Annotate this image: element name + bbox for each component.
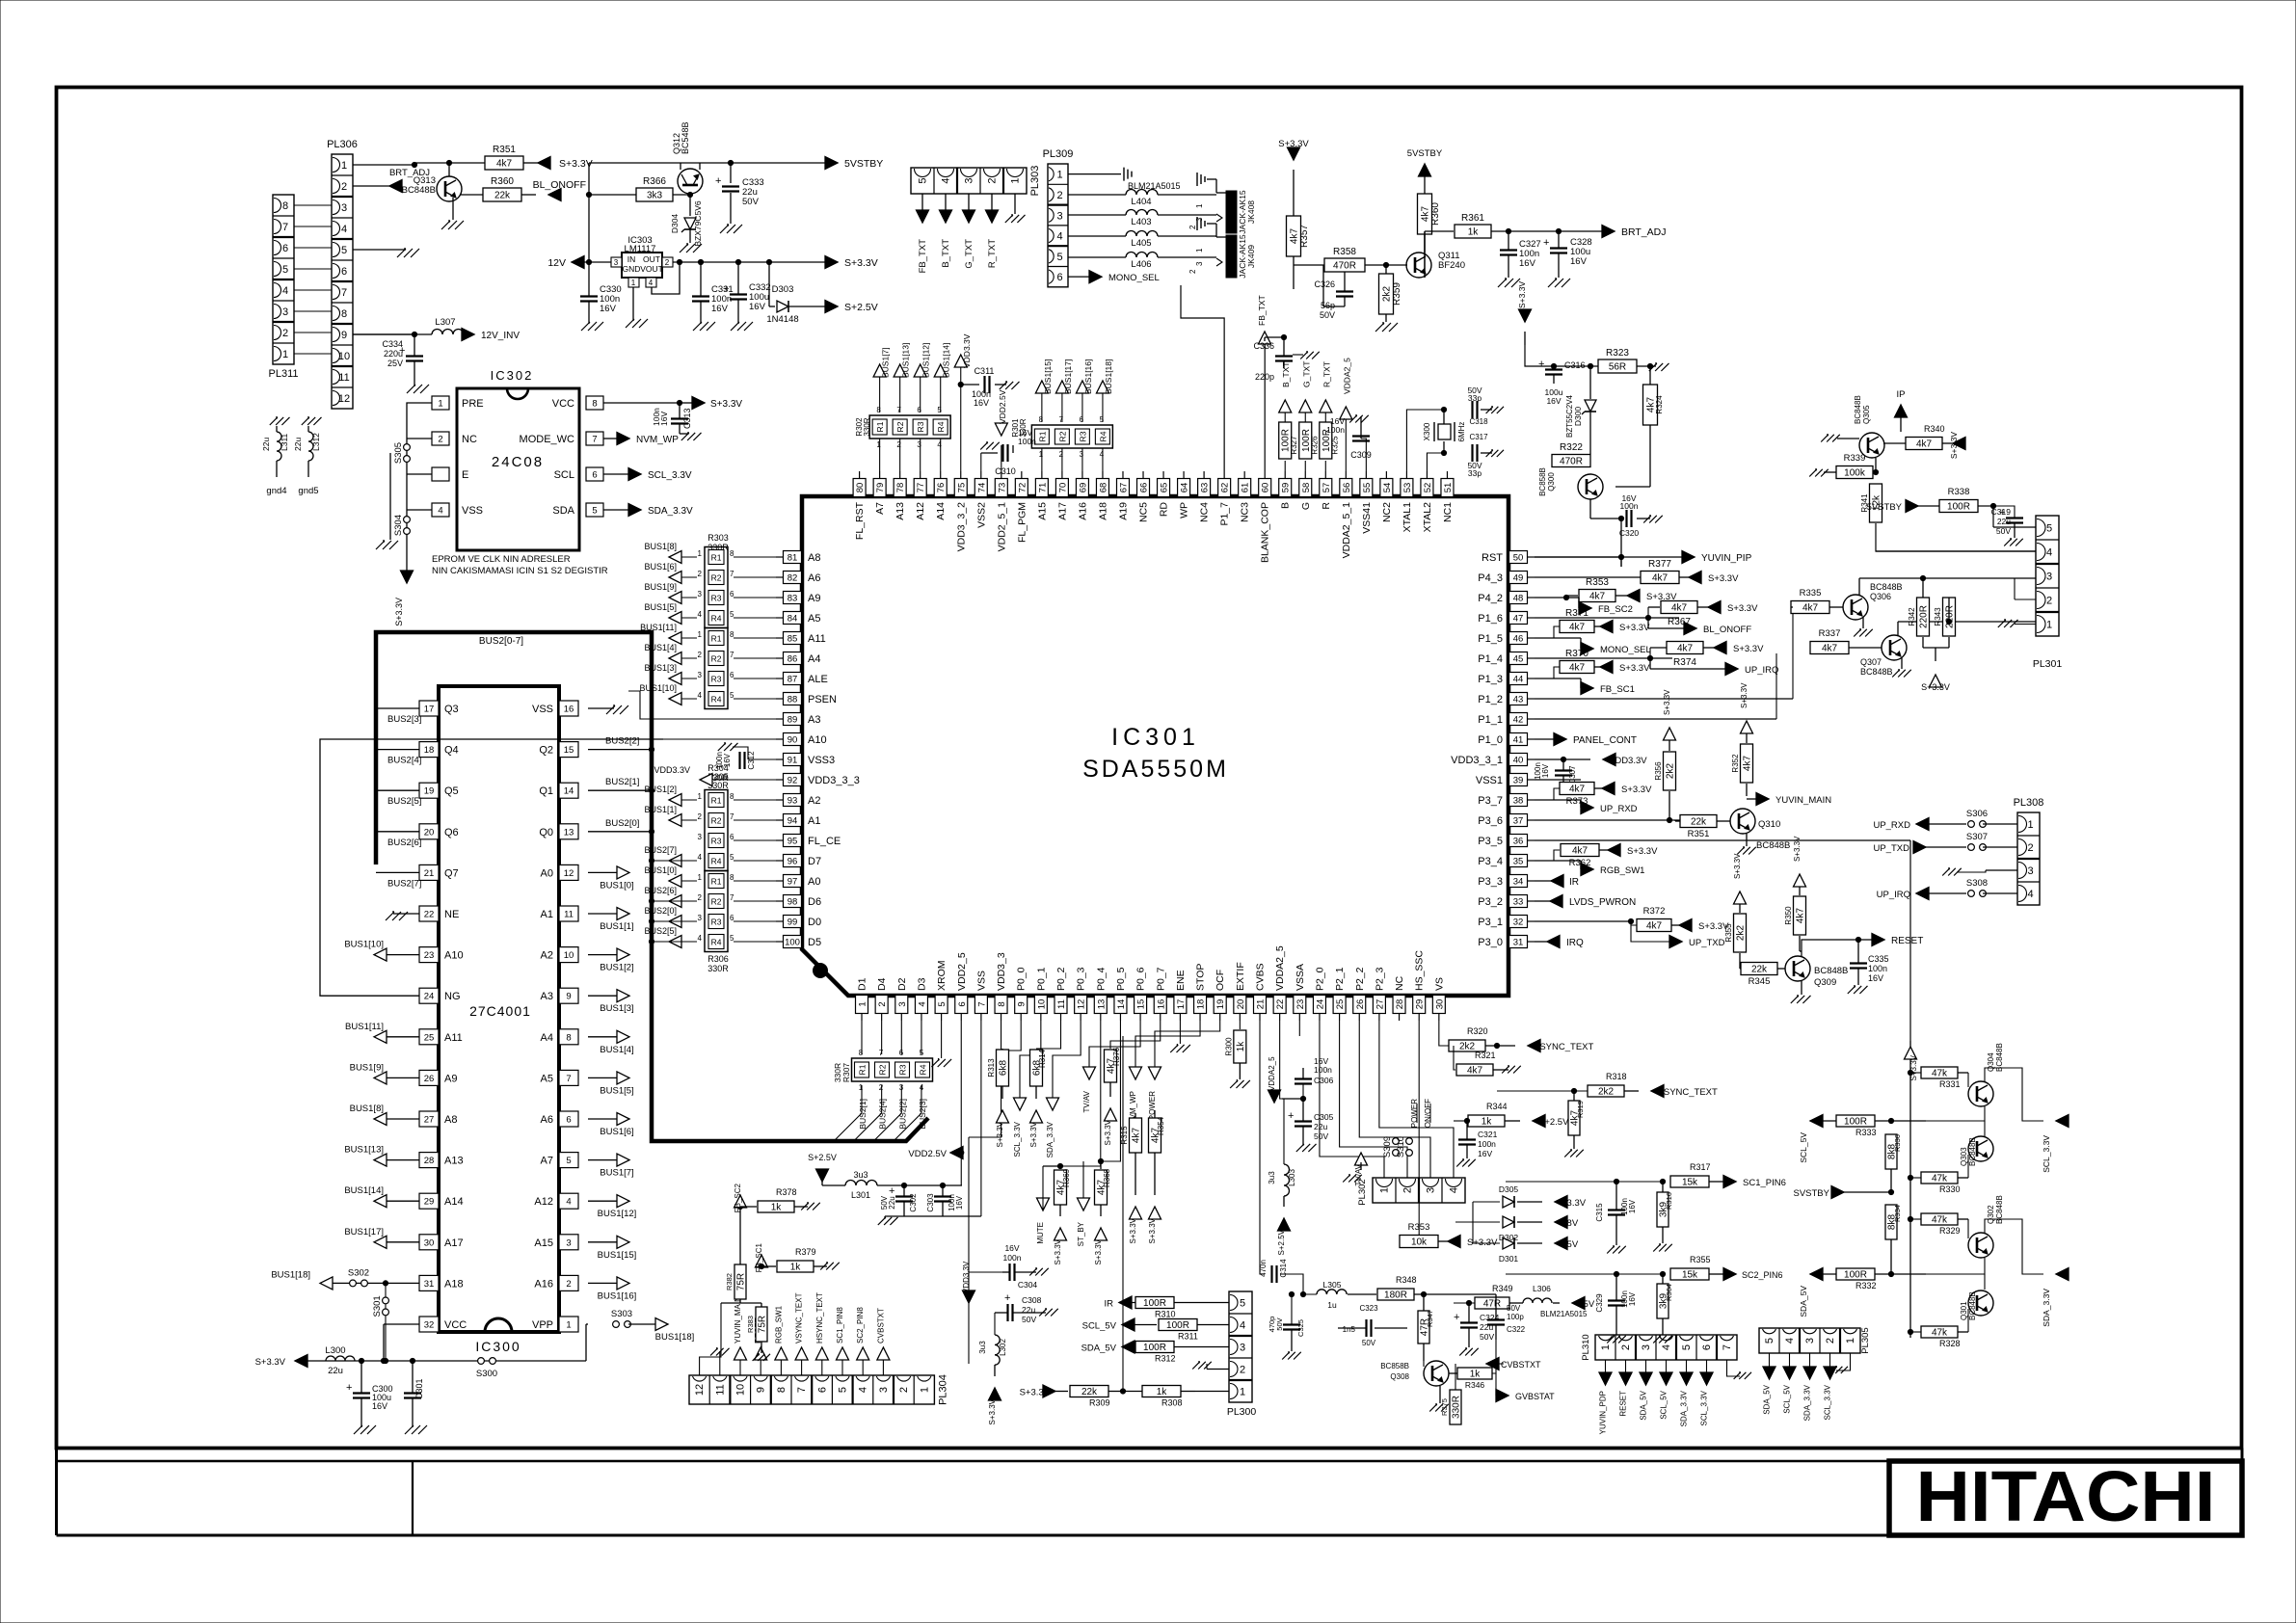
- svg-text:BUS1[13]: BUS1[13]: [901, 343, 911, 378]
- svg-text:R382: R382: [725, 1273, 734, 1290]
- svg-text:S+3.3V: S+3.3V: [255, 1357, 286, 1368]
- svg-text:21: 21: [1256, 999, 1267, 1010]
- svg-text:UP_TXD: UP_TXD: [1689, 938, 1725, 948]
- svg-text:R3: R3: [711, 837, 722, 846]
- svg-text:R339: R339: [1844, 453, 1866, 464]
- svg-text:4k7: 4k7: [1589, 592, 1606, 602]
- svg-text:C322: C322: [1507, 1325, 1526, 1334]
- svg-text:S+3.3V: S+3.3V: [1278, 139, 1309, 149]
- svg-text:S307: S307: [1966, 832, 1988, 842]
- svg-text:4k7: 4k7: [1916, 439, 1933, 450]
- svg-text:R323: R323: [1606, 348, 1629, 359]
- svg-text:C317: C317: [1469, 433, 1488, 441]
- svg-text:BC848B: BC848B: [1870, 582, 1903, 592]
- svg-text:46: 46: [1513, 634, 1524, 645]
- svg-text:Q300: Q300: [1547, 472, 1556, 492]
- svg-text:X300: X300: [1423, 422, 1431, 440]
- svg-text:6: 6: [592, 470, 597, 481]
- svg-text:ALE: ALE: [808, 674, 828, 685]
- svg-text:8: 8: [566, 1032, 571, 1043]
- svg-text:A12: A12: [915, 502, 926, 520]
- svg-text:L403: L403: [1131, 217, 1151, 227]
- svg-text:S+3.3V: S+3.3V: [1733, 853, 1742, 879]
- svg-text:7: 7: [592, 435, 597, 445]
- svg-text:1: 1: [631, 279, 636, 287]
- svg-text:R337: R337: [1819, 628, 1841, 639]
- svg-text:BUS1[16]: BUS1[16]: [1083, 359, 1093, 394]
- svg-text:A9: A9: [444, 1073, 457, 1084]
- svg-text:P0_2: P0_2: [1055, 967, 1067, 991]
- svg-text:R350: R350: [1784, 906, 1793, 925]
- svg-text:R336: R336: [1893, 1134, 1902, 1152]
- svg-text:50V: 50V: [1507, 1304, 1521, 1313]
- svg-text:Q307: Q307: [1860, 657, 1882, 667]
- svg-text:47k: 47k: [1932, 1328, 1948, 1339]
- svg-text:SC1_PIN8: SC1_PIN8: [836, 1307, 844, 1344]
- svg-text:SDA_3.3V: SDA_3.3V: [648, 506, 693, 517]
- svg-text:220u: 220u: [384, 349, 403, 359]
- svg-text:B: B: [1280, 502, 1292, 509]
- svg-text:2: 2: [566, 1279, 571, 1290]
- svg-text:FB_TXT: FB_TXT: [1257, 295, 1267, 326]
- svg-text:50V: 50V: [1362, 1339, 1376, 1347]
- svg-text:P3_0: P3_0: [1478, 937, 1503, 948]
- svg-text:2: 2: [1402, 1187, 1414, 1193]
- svg-text:R1: R1: [875, 421, 885, 432]
- svg-text:SDA_3.3V: SDA_3.3V: [1680, 1390, 1689, 1426]
- svg-text:42: 42: [1513, 715, 1524, 726]
- svg-text:PL304: PL304: [937, 1374, 948, 1405]
- svg-text:BL_ONOFF: BL_ONOFF: [1703, 625, 1751, 635]
- svg-text:NIN CAKISMAMASI ICIN S1 S2 DEG: NIN CAKISMAMASI ICIN S1 S2 DEGISTIR: [432, 566, 608, 576]
- svg-text:5: 5: [566, 1156, 571, 1166]
- svg-text:PL310: PL310: [1581, 1334, 1591, 1360]
- svg-text:BUS1[1]: BUS1[1]: [644, 805, 677, 814]
- svg-text:1k: 1k: [1482, 1117, 1493, 1128]
- svg-text:2: 2: [2027, 842, 2033, 854]
- svg-text:17: 17: [424, 705, 435, 715]
- svg-text:IC301: IC301: [1111, 724, 1200, 751]
- svg-text:S+3.3V: S+3.3V: [1619, 663, 1650, 674]
- svg-text:5: 5: [341, 245, 347, 256]
- svg-text:BL_ONOFF: BL_ONOFF: [533, 179, 586, 191]
- svg-text:8: 8: [876, 406, 881, 414]
- svg-text:IN: IN: [627, 254, 636, 264]
- svg-text:A6: A6: [808, 572, 820, 584]
- svg-text:VDD3_3_1: VDD3_3_1: [1451, 755, 1503, 766]
- svg-text:+: +: [1288, 1110, 1294, 1122]
- svg-text:22u: 22u: [261, 438, 271, 451]
- svg-text:2k2: 2k2: [1666, 763, 1676, 780]
- svg-text:1: 1: [698, 549, 703, 558]
- svg-text:P0_6: P0_6: [1135, 967, 1147, 991]
- svg-text:R2: R2: [895, 421, 905, 432]
- svg-text:BUS1[7]: BUS1[7]: [881, 347, 891, 378]
- svg-text:R2: R2: [711, 897, 722, 907]
- svg-text:S+3.3V: S+3.3V: [1733, 644, 1764, 654]
- svg-text:Q1: Q1: [539, 785, 553, 797]
- svg-text:BZT55C2V4: BZT55C2V4: [1565, 394, 1574, 438]
- svg-text:C318: C318: [1469, 417, 1488, 426]
- svg-text:SCL_3.3V: SCL_3.3V: [648, 470, 692, 481]
- svg-text:5: 5: [592, 506, 597, 517]
- svg-text:R1: R1: [858, 1064, 868, 1075]
- svg-text:S+3.3V: S+3.3V: [1619, 623, 1650, 633]
- svg-text:4: 4: [1784, 1338, 1796, 1344]
- svg-text:BUS1[4]: BUS1[4]: [600, 1045, 633, 1055]
- svg-text:27: 27: [1375, 999, 1385, 1010]
- svg-text:D303: D303: [772, 284, 794, 295]
- svg-text:BUS1[15]: BUS1[15]: [1043, 359, 1053, 394]
- svg-text:A12: A12: [534, 1196, 553, 1208]
- svg-text:R346: R346: [1465, 1380, 1485, 1390]
- svg-text:22k: 22k: [1081, 1387, 1098, 1397]
- svg-text:2: 2: [282, 328, 288, 339]
- svg-text:10: 10: [1036, 999, 1047, 1010]
- svg-text:98: 98: [788, 897, 798, 908]
- svg-text:8: 8: [1039, 415, 1044, 424]
- svg-text:C336: C336: [1253, 341, 1274, 351]
- svg-text:5: 5: [2046, 523, 2052, 535]
- svg-text:R1: R1: [711, 796, 722, 806]
- svg-text:2k2: 2k2: [1736, 925, 1747, 942]
- svg-text:12V: 12V: [547, 257, 566, 269]
- svg-text:VSYNC_TEXT: VSYNC_TEXT: [1534, 1042, 1593, 1052]
- svg-text:R3: R3: [898, 1064, 908, 1075]
- svg-text:30: 30: [1434, 999, 1445, 1010]
- svg-text:A18: A18: [1097, 502, 1108, 520]
- svg-text:91: 91: [788, 756, 798, 766]
- svg-text:JK409: JK409: [1246, 245, 1256, 268]
- svg-text:11: 11: [338, 372, 349, 384]
- svg-text:4k7: 4k7: [1743, 756, 1753, 772]
- svg-text:7: 7: [1059, 415, 1064, 424]
- svg-text:22u: 22u: [328, 1366, 343, 1376]
- svg-text:BUS2[0]: BUS2[0]: [644, 906, 677, 916]
- svg-text:D304: D304: [670, 214, 680, 234]
- svg-text:4k7: 4k7: [1822, 644, 1838, 654]
- svg-text:26: 26: [424, 1074, 435, 1084]
- svg-text:NC4: NC4: [1199, 502, 1211, 522]
- svg-text:R364: R364: [1665, 1284, 1673, 1301]
- svg-text:A10: A10: [808, 734, 827, 746]
- svg-text:56: 56: [1342, 483, 1352, 493]
- svg-text:31: 31: [1513, 938, 1524, 948]
- svg-text:G: G: [1300, 502, 1312, 510]
- svg-text:3: 3: [1080, 450, 1084, 459]
- svg-text:L300: L300: [325, 1345, 345, 1356]
- svg-text:82: 82: [788, 573, 798, 584]
- svg-text:20: 20: [1236, 999, 1246, 1010]
- svg-text:R374: R374: [1673, 657, 1696, 668]
- svg-text:5VSTBY: 5VSTBY: [1407, 148, 1443, 159]
- svg-text:YUVIN_PIP: YUVIN_PIP: [1701, 553, 1752, 564]
- svg-text:VSS3: VSS3: [808, 755, 835, 766]
- svg-text:D300: D300: [1573, 407, 1583, 427]
- svg-text:79: 79: [875, 483, 886, 493]
- svg-text:RESET: RESET: [1891, 936, 1923, 946]
- svg-text:73: 73: [997, 483, 1007, 493]
- svg-text:27C4001: 27C4001: [469, 1003, 531, 1019]
- svg-text:A9: A9: [808, 593, 820, 604]
- svg-text:220R: 220R: [1919, 605, 1930, 628]
- svg-text:8: 8: [997, 1001, 1007, 1006]
- svg-text:R3: R3: [916, 421, 925, 432]
- svg-text:5: 5: [1681, 1344, 1693, 1350]
- svg-text:VDD3_3_2: VDD3_3_2: [955, 502, 967, 552]
- svg-text:S+3.3V: S+3.3V: [988, 1398, 997, 1424]
- svg-text:86: 86: [788, 654, 798, 665]
- svg-text:12: 12: [694, 1384, 706, 1396]
- svg-text:100R: 100R: [1166, 1320, 1189, 1331]
- svg-text:A2: A2: [808, 795, 820, 807]
- svg-text:5: 5: [937, 1001, 948, 1006]
- svg-text:17: 17: [1176, 999, 1187, 1010]
- svg-text:22u: 22u: [1314, 1122, 1327, 1131]
- svg-text:VDDA2_5: VDDA2_5: [1342, 358, 1351, 394]
- svg-text:GVBSTAT: GVBSTAT: [1515, 1392, 1555, 1401]
- svg-text:BC858B: BC858B: [1380, 1362, 1409, 1370]
- svg-text:C308: C308: [1022, 1295, 1042, 1305]
- svg-text:C313: C313: [682, 408, 692, 429]
- svg-text:BRT_ADJ: BRT_ADJ: [1621, 226, 1667, 238]
- svg-text:2: 2: [1056, 190, 1062, 201]
- svg-text:7: 7: [282, 222, 288, 233]
- svg-text:93: 93: [788, 796, 798, 807]
- svg-text:3u3: 3u3: [1268, 1171, 1276, 1184]
- svg-text:85: 85: [788, 634, 798, 645]
- svg-text:BUS1[17]: BUS1[17]: [344, 1227, 384, 1237]
- svg-text:45: 45: [1513, 654, 1524, 665]
- svg-text:R2: R2: [711, 816, 722, 826]
- svg-text:R334: R334: [1893, 1205, 1902, 1222]
- svg-text:S+2.5V: S+2.5V: [808, 1153, 837, 1162]
- svg-text:NC: NC: [462, 434, 477, 445]
- svg-text:Q5: Q5: [444, 785, 459, 797]
- svg-text:A17: A17: [1056, 502, 1068, 520]
- svg-text:YUVIN_PDP: YUVIN_PDP: [1599, 1391, 1608, 1434]
- svg-text:C309: C309: [1350, 450, 1372, 460]
- svg-text:S+3.3V: S+3.3V: [1949, 432, 1959, 459]
- svg-text:6: 6: [1056, 272, 1062, 283]
- svg-text:G_TXT: G_TXT: [964, 239, 974, 269]
- svg-text:A15: A15: [534, 1237, 553, 1249]
- svg-text:1: 1: [438, 399, 442, 410]
- svg-text:BUS1[15]: BUS1[15]: [598, 1250, 637, 1261]
- svg-text:100k: 100k: [1844, 468, 1866, 479]
- svg-text:R1: R1: [711, 877, 722, 887]
- svg-text:PL301: PL301: [2033, 658, 2063, 670]
- svg-text:S+3.3V: S+3.3V: [1727, 603, 1758, 614]
- svg-text:72: 72: [1017, 483, 1028, 493]
- svg-text:BUS1[9]: BUS1[9]: [350, 1062, 384, 1073]
- svg-text:50V: 50V: [1320, 310, 1335, 320]
- svg-text:BC848B: BC848B: [1814, 966, 1848, 976]
- svg-text:P3_6: P3_6: [1478, 815, 1503, 827]
- svg-text:16V: 16V: [1541, 763, 1550, 778]
- svg-text:16V: 16V: [974, 398, 989, 408]
- svg-text:BUS2[1]: BUS2[1]: [858, 1099, 868, 1130]
- svg-text:1: 1: [876, 440, 881, 449]
- svg-text:4: 4: [698, 853, 703, 862]
- svg-text:18: 18: [1196, 999, 1207, 1010]
- svg-text:BUS2[6]: BUS2[6]: [387, 838, 421, 848]
- svg-text:A8: A8: [808, 552, 820, 564]
- svg-text:12V_INV: 12V_INV: [481, 331, 520, 341]
- svg-text:22u: 22u: [293, 438, 303, 451]
- svg-text:D1: D1: [857, 977, 868, 991]
- svg-text:PL300: PL300: [1227, 1406, 1257, 1418]
- svg-text:3u3: 3u3: [978, 1341, 987, 1354]
- svg-text:75: 75: [956, 483, 967, 493]
- svg-text:SCL_5V: SCL_5V: [1783, 1384, 1792, 1413]
- svg-text:100R: 100R: [1143, 1298, 1166, 1309]
- svg-text:3: 3: [698, 671, 703, 679]
- svg-text:L307: L307: [435, 317, 455, 328]
- svg-text:BUS1[8]: BUS1[8]: [350, 1104, 384, 1114]
- svg-text:SDA_5V: SDA_5V: [1640, 1390, 1648, 1420]
- svg-text:VDD2_5: VDD2_5: [956, 952, 968, 991]
- svg-text:1: 1: [1195, 203, 1204, 208]
- svg-text:30: 30: [424, 1237, 435, 1248]
- svg-text:A1: A1: [541, 909, 553, 920]
- svg-text:1: 1: [698, 630, 703, 639]
- svg-text:4: 4: [282, 285, 288, 297]
- svg-text:2: 2: [438, 435, 442, 445]
- svg-text:P4_2: P4_2: [1478, 593, 1503, 604]
- svg-text:FB_TXT: FB_TXT: [918, 239, 928, 274]
- svg-text:R352: R352: [1731, 754, 1740, 773]
- svg-text:16V: 16V: [1628, 1291, 1637, 1306]
- svg-text:R2: R2: [1057, 431, 1067, 441]
- svg-text:BUS1[6]: BUS1[6]: [600, 1127, 633, 1137]
- svg-text:S+2.5V: S+2.5V: [844, 302, 878, 313]
- svg-text:D3: D3: [916, 977, 927, 991]
- svg-text:3: 3: [341, 202, 347, 214]
- svg-text:52: 52: [1423, 483, 1433, 493]
- svg-text:3: 3: [1056, 210, 1062, 222]
- svg-text:G_TXT: G_TXT: [1301, 361, 1311, 387]
- svg-text:R335: R335: [1800, 588, 1822, 599]
- svg-text:A5: A5: [541, 1073, 553, 1084]
- svg-text:1k: 1k: [1470, 1370, 1482, 1380]
- svg-text:95: 95: [788, 837, 798, 847]
- svg-text:BLM21A5015: BLM21A5015: [1540, 1310, 1588, 1318]
- svg-text:CVBSTXT: CVBSTXT: [876, 1308, 885, 1344]
- svg-text:Q304: Q304: [1987, 1052, 1995, 1072]
- svg-text:C303: C303: [926, 1193, 935, 1212]
- svg-text:4k7: 4k7: [1802, 603, 1819, 614]
- svg-text:R_TXT: R_TXT: [987, 239, 998, 268]
- svg-text:6: 6: [816, 1387, 828, 1393]
- svg-text:3: 3: [878, 1387, 890, 1393]
- svg-text:R317: R317: [1690, 1162, 1711, 1172]
- svg-text:VCC: VCC: [444, 1319, 467, 1331]
- svg-text:SCL_5V: SCL_5V: [1082, 1321, 1117, 1332]
- svg-text:R307: R307: [841, 1063, 851, 1083]
- svg-text:1k: 1k: [771, 1203, 783, 1213]
- svg-text:38: 38: [1513, 796, 1524, 807]
- svg-text:R370: R370: [1565, 649, 1589, 659]
- svg-text:S+3.3V: S+3.3V: [1104, 1119, 1112, 1145]
- svg-text:A16: A16: [1077, 502, 1088, 520]
- svg-text:D0: D0: [808, 917, 821, 928]
- svg-text:62: 62: [1220, 483, 1231, 493]
- svg-text:Q310: Q310: [1758, 819, 1780, 830]
- svg-text:71: 71: [1037, 483, 1048, 493]
- svg-text:VOUT: VOUT: [640, 264, 663, 274]
- svg-text:R360: R360: [491, 176, 514, 187]
- svg-text:4k7: 4k7: [1290, 228, 1300, 245]
- svg-text:100n: 100n: [1478, 1139, 1496, 1149]
- svg-text:19: 19: [424, 786, 435, 797]
- svg-text:100: 100: [785, 938, 800, 948]
- svg-text:BUS1[16]: BUS1[16]: [598, 1290, 637, 1301]
- svg-text:6: 6: [1701, 1344, 1713, 1350]
- svg-text:+: +: [889, 1185, 894, 1197]
- svg-text:3: 3: [2027, 865, 2033, 877]
- svg-text:2: 2: [1188, 225, 1197, 229]
- svg-text:470R: 470R: [1560, 457, 1583, 467]
- svg-text:C312: C312: [747, 751, 756, 770]
- svg-text:P3_5: P3_5: [1478, 836, 1503, 847]
- svg-text:Q2: Q2: [539, 745, 553, 757]
- svg-text:22u: 22u: [888, 1196, 896, 1209]
- svg-text:BC858B: BC858B: [1538, 467, 1547, 496]
- svg-text:1: 1: [282, 349, 288, 360]
- svg-text:R354: R354: [1157, 1116, 1165, 1135]
- svg-text:IP: IP: [1897, 389, 1906, 400]
- svg-text:1k: 1k: [790, 1263, 802, 1273]
- svg-text:+: +: [1999, 507, 2005, 519]
- svg-text:HS_SSC: HS_SSC: [1414, 950, 1426, 991]
- svg-text:S305: S305: [393, 442, 404, 464]
- svg-text:220R: 220R: [1945, 605, 1956, 628]
- svg-text:1N4148: 1N4148: [766, 314, 798, 325]
- svg-text:1: 1: [1039, 450, 1044, 459]
- svg-text:WP: WP: [1179, 502, 1190, 519]
- svg-text:80: 80: [855, 483, 866, 493]
- svg-text:XTAL2: XTAL2: [1422, 502, 1433, 532]
- svg-text:LM1117: LM1117: [625, 244, 656, 254]
- svg-text:1k: 1k: [1157, 1387, 1168, 1397]
- svg-text:S+3.3V: S+3.3V: [1793, 836, 1802, 862]
- svg-text:16V: 16V: [723, 753, 732, 767]
- svg-text:24: 24: [1315, 999, 1325, 1010]
- svg-text:50V: 50V: [1480, 1332, 1494, 1342]
- svg-text:BUS1[12]: BUS1[12]: [921, 343, 931, 378]
- svg-text:R342: R342: [1908, 607, 1916, 626]
- svg-text:24: 24: [424, 992, 435, 1002]
- svg-text:P0_5: P0_5: [1115, 967, 1127, 991]
- svg-text:R369: R369: [1062, 1168, 1071, 1187]
- svg-text:R321: R321: [1475, 1051, 1496, 1060]
- svg-text:VDD3_3: VDD3_3: [996, 952, 1007, 991]
- svg-text:12: 12: [338, 393, 350, 405]
- svg-text:470n: 470n: [1259, 1260, 1268, 1277]
- svg-text:BUS1[3]: BUS1[3]: [600, 1003, 633, 1014]
- svg-text:P0_3: P0_3: [1076, 967, 1087, 991]
- svg-text:330R: 330R: [833, 1063, 842, 1082]
- svg-text:22k: 22k: [1751, 965, 1768, 975]
- svg-text:47R: 47R: [1483, 1299, 1501, 1310]
- svg-text:SCL_3.3V: SCL_3.3V: [1824, 1384, 1832, 1420]
- svg-text:1: 1: [1845, 1338, 1856, 1344]
- svg-text:BUS2[0-7]: BUS2[0-7]: [479, 636, 523, 647]
- svg-text:R376: R376: [1112, 1047, 1121, 1066]
- svg-text:S+3.3V: S+3.3V: [559, 158, 593, 170]
- svg-text:2k2: 2k2: [1598, 1087, 1615, 1098]
